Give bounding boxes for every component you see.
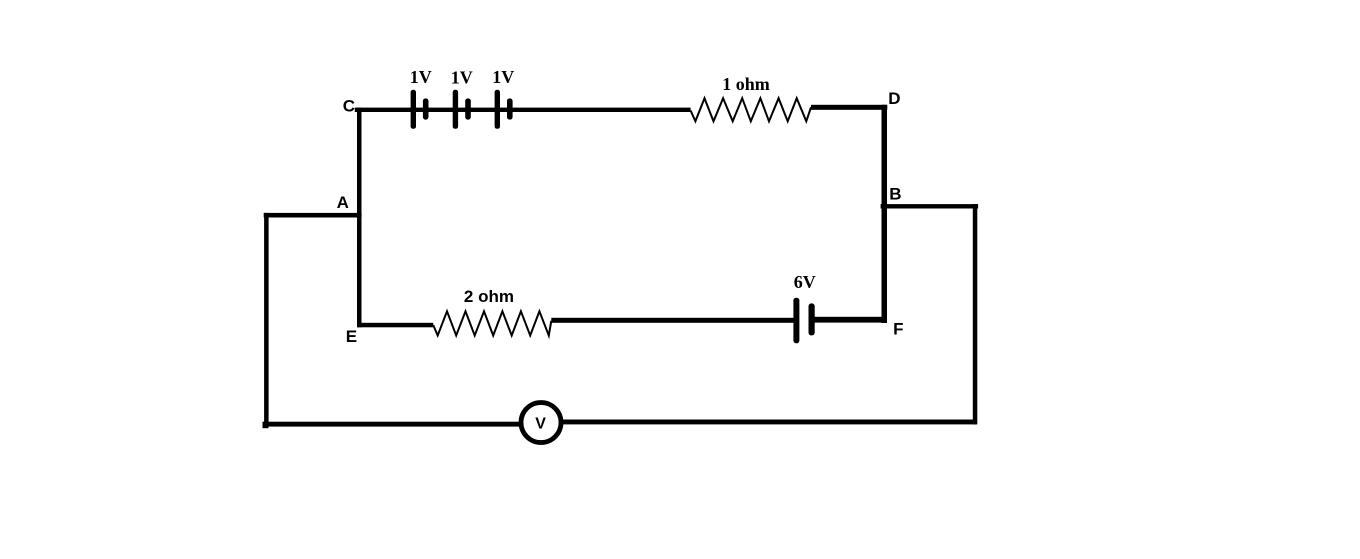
svg-text:D: D <box>888 89 900 108</box>
svg-text:1 ohm: 1 ohm <box>722 74 770 94</box>
svg-text:V: V <box>535 416 546 433</box>
svg-text:6V: 6V <box>794 272 816 292</box>
svg-text:1V: 1V <box>492 67 514 87</box>
svg-text:1V: 1V <box>410 67 432 87</box>
svg-text:1V: 1V <box>451 68 473 88</box>
svg-text:E: E <box>346 327 357 346</box>
svg-text:B: B <box>889 185 901 204</box>
svg-text:A: A <box>337 193 349 212</box>
svg-text:C: C <box>343 96 355 115</box>
svg-text:2 ohm: 2 ohm <box>464 287 514 306</box>
svg-text:F: F <box>893 320 903 339</box>
